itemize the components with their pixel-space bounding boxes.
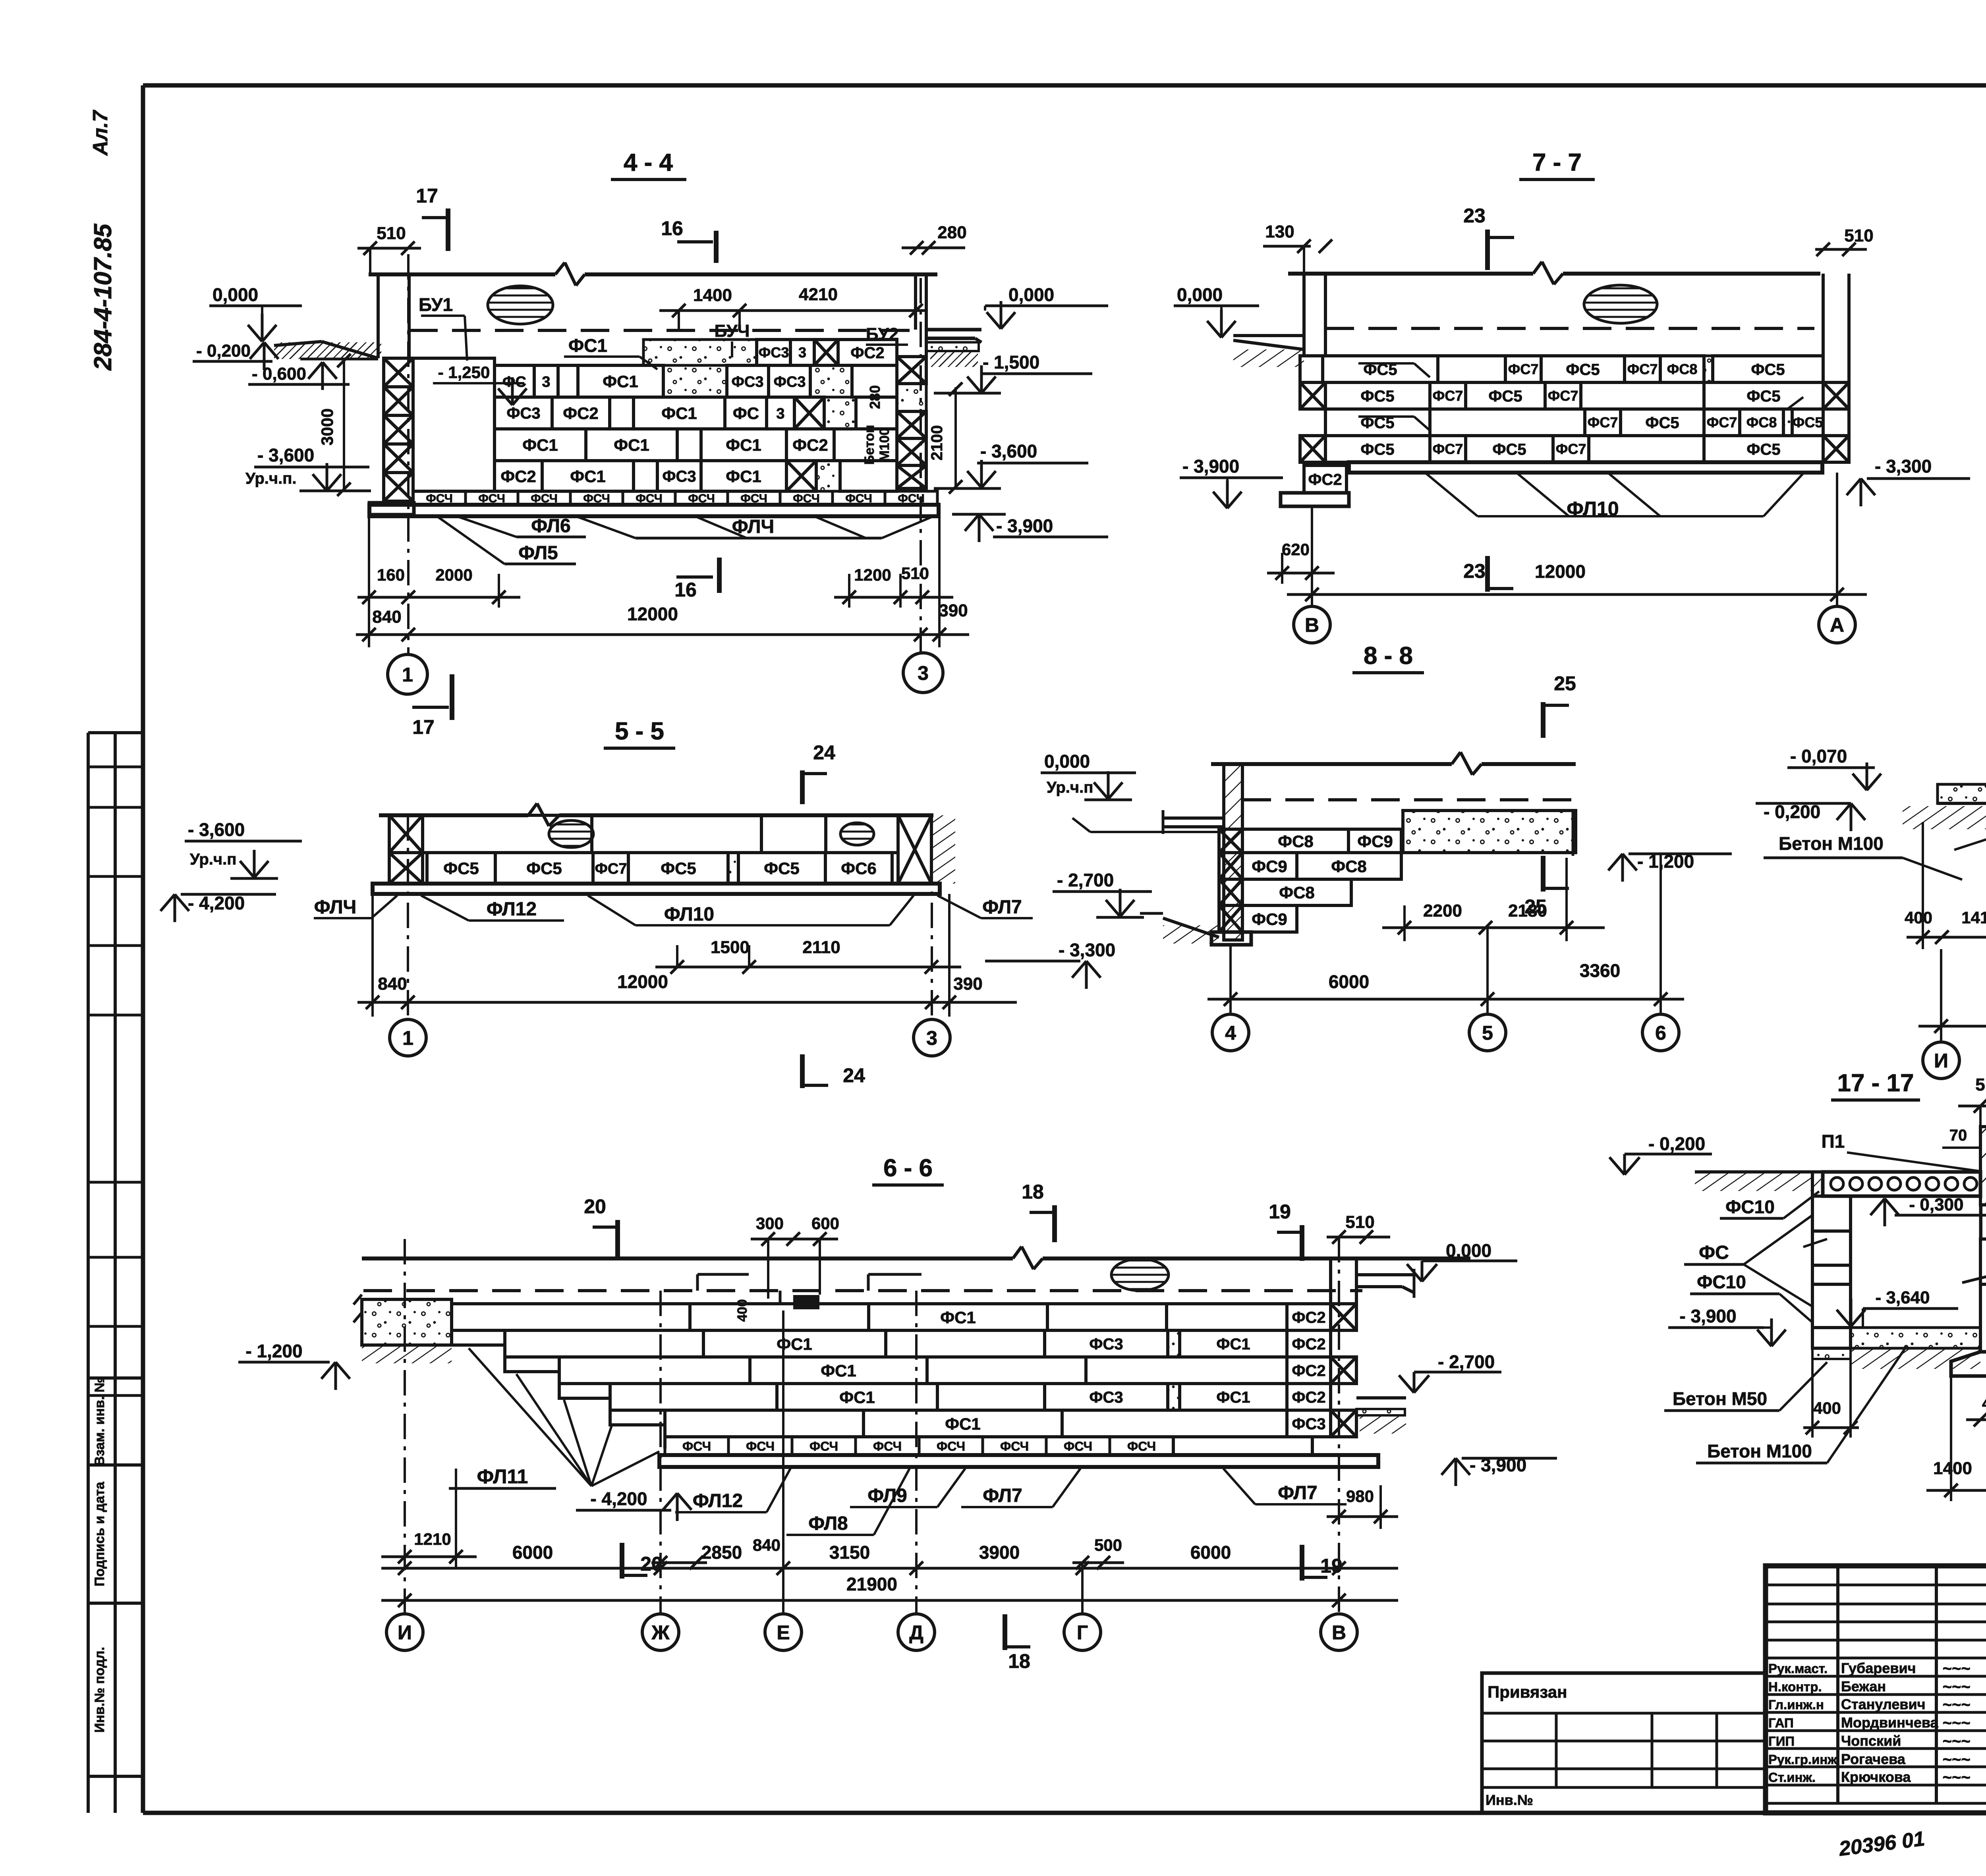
- svg-text:Бежан: Бежан: [1841, 1678, 1886, 1695]
- svg-text:130: 130: [1265, 222, 1294, 241]
- svg-text:А: А: [1830, 614, 1844, 636]
- base plate 6-6: [659, 1455, 1378, 1467]
- svg-text:ФС1: ФС1: [726, 467, 761, 486]
- svg-text:ФСЧ: ФСЧ: [1000, 1439, 1029, 1453]
- svg-text:Ст.инж.: Ст.инж.: [1768, 1770, 1816, 1785]
- svg-text:П1: П1: [1822, 1131, 1845, 1152]
- svg-text:ФС: ФС: [1699, 1242, 1729, 1263]
- concrete strip stipple 8-8: [1403, 811, 1576, 853]
- right pier X blocks: [897, 357, 926, 384]
- svg-text:70: 70: [1949, 1127, 1967, 1144]
- concrete pad left stipple: [362, 1299, 452, 1345]
- svg-text:3: 3: [918, 662, 929, 684]
- svg-text:12000: 12000: [627, 604, 678, 624]
- base plate 5-5: [373, 884, 940, 894]
- dashed line 8-8: [1242, 798, 1575, 801]
- floor and hatch right of wall: [1356, 1396, 1406, 1399]
- svg-text:ФС2: ФС2: [1292, 1309, 1325, 1326]
- svg-text:ФЛ11: ФЛ11: [477, 1465, 528, 1488]
- row3 6-6: [559, 1357, 750, 1384]
- svg-text:3: 3: [542, 374, 550, 390]
- svg-text:ФС6: ФС6: [841, 859, 877, 878]
- svg-text:12000: 12000: [617, 971, 668, 992]
- svg-text:ФС7: ФС7: [1588, 414, 1618, 430]
- svg-text:280: 280: [867, 385, 883, 409]
- block row 3: [495, 429, 586, 461]
- svg-text:0,000: 0,000: [213, 284, 258, 305]
- svg-text:ФС2: ФС2: [500, 467, 536, 486]
- svg-text:18: 18: [1022, 1181, 1044, 1203]
- row 2 blocks: [389, 853, 423, 884]
- right floor slab and ground: [926, 328, 981, 332]
- svg-text:- 3,300: - 3,300: [1875, 456, 1932, 477]
- svg-text:ФЛ10: ФЛ10: [664, 904, 714, 925]
- svg-text:ФС7: ФС7: [1627, 361, 1658, 377]
- svg-text:ФС2: ФС2: [792, 436, 828, 454]
- svg-text:- 3,600: - 3,600: [188, 819, 245, 840]
- svg-text:ФС5: ФС5: [661, 859, 696, 878]
- svg-text:21900: 21900: [846, 1574, 897, 1594]
- svg-text:ФС1: ФС1: [1216, 1336, 1250, 1353]
- svg-text:Ж: Ж: [651, 1621, 670, 1644]
- svg-text:- 3,900: - 3,900: [1679, 1306, 1736, 1326]
- svg-text:И: И: [1934, 1050, 1948, 1072]
- svg-text:ФС8: ФС8: [1279, 883, 1315, 902]
- svg-text:М100: М100: [877, 428, 892, 461]
- svg-text:ФС7: ФС7: [1548, 388, 1578, 404]
- cut flag 23 bottom: [1485, 556, 1490, 592]
- top line of wall: [379, 813, 528, 817]
- svg-text:ФС7: ФС7: [1508, 361, 1539, 377]
- right end tall X box: [898, 815, 931, 884]
- top floor line 6-6: [362, 1256, 1013, 1260]
- svg-text:ФС2: ФС2: [1292, 1336, 1325, 1353]
- svg-text:Е: Е: [777, 1621, 790, 1644]
- cloud hatch blob: [488, 286, 553, 324]
- cut flag 25 mid: [1541, 856, 1546, 892]
- svg-text:Крючкова: Крючкова: [1841, 1769, 1911, 1785]
- svg-text:Ур.ч.п: Ур.ч.п: [190, 851, 236, 868]
- svg-text:Бетон: Бетон: [862, 425, 877, 465]
- axis circle И 9-9: [1923, 1042, 1959, 1079]
- svg-text:ФС2: ФС2: [1292, 1389, 1325, 1406]
- svg-text:~~~: ~~~: [1942, 1751, 1970, 1768]
- axis circle 3: [903, 653, 943, 693]
- svg-text:ФС1: ФС1: [570, 467, 606, 486]
- hatched wall strip 8-8: [1224, 764, 1242, 940]
- axis circle 5: [1469, 1014, 1506, 1051]
- axis circle В 7-7: [1294, 606, 1330, 643]
- pier footing: [369, 503, 414, 515]
- svg-text:Бетон М100: Бетон М100: [1779, 833, 1884, 854]
- svg-text:20: 20: [584, 1195, 606, 1218]
- upper wall hatched 17-17: [1980, 1127, 1986, 1205]
- floor concrete strip between walls: [1851, 1328, 1980, 1348]
- svg-text:2180: 2180: [1508, 901, 1547, 921]
- svg-text:ФС2: ФС2: [1292, 1362, 1325, 1380]
- top line 8-8: [1211, 762, 1452, 766]
- svg-text:400: 400: [1905, 908, 1932, 927]
- svg-text:390: 390: [939, 601, 968, 620]
- right wall 17-17: [1980, 1239, 1986, 1284]
- svg-text:ФС5: ФС5: [764, 859, 800, 878]
- axis circle 4: [1212, 1014, 1249, 1051]
- svg-text:ФС1: ФС1: [726, 436, 761, 454]
- svg-text:ФЛ12: ФЛ12: [693, 1490, 743, 1511]
- svg-text:2110: 2110: [802, 938, 840, 957]
- right wall above ground: [914, 274, 917, 330]
- svg-text:390: 390: [953, 974, 982, 994]
- svg-text:- 0,070: - 0,070: [1790, 746, 1847, 766]
- row 1 tall blocks: [389, 815, 423, 853]
- svg-text:- 4,200: - 4,200: [590, 1488, 647, 1509]
- left sidebar column: [87, 733, 90, 1813]
- svg-text:- 2,700: - 2,700: [1057, 870, 1114, 890]
- svg-text:ФС5: ФС5: [443, 859, 479, 878]
- row5 6-6: [665, 1410, 864, 1437]
- left pad stipple: [1938, 784, 1986, 803]
- svg-text:6 - 6: 6 - 6: [883, 1154, 933, 1182]
- svg-text:ФС1: ФС1: [661, 404, 697, 423]
- svg-text:500: 500: [1094, 1536, 1122, 1554]
- svg-text:ФС5: ФС5: [526, 859, 562, 878]
- svg-text:ФС10: ФС10: [1697, 1272, 1746, 1292]
- axis circle Е 6-6: [765, 1614, 802, 1650]
- svg-text:Г: Г: [1077, 1621, 1088, 1644]
- left wall 17-17: [1812, 1196, 1851, 1231]
- svg-text:Подпись и дата: Подпись и дата: [92, 1481, 107, 1586]
- svg-text:ФС1: ФС1: [940, 1308, 976, 1327]
- ground hatch left of wall: [274, 342, 322, 345]
- svg-text:ФС3: ФС3: [506, 405, 540, 422]
- svg-text:ФС: ФС: [733, 404, 759, 423]
- svg-text:Взам. инв. №: Взам. инв. №: [92, 1377, 107, 1466]
- ground hatch left 17-17: [1695, 1170, 1812, 1173]
- svg-text:ФС7: ФС7: [595, 861, 627, 877]
- svg-text:4: 4: [1225, 1022, 1236, 1044]
- cut flag 19 bottom: [1300, 1545, 1304, 1581]
- svg-text:17: 17: [412, 716, 435, 738]
- svg-text:Чопский: Чопский: [1841, 1733, 1901, 1749]
- svg-text:ФС1: ФС1: [568, 335, 607, 356]
- block row 4: [495, 461, 542, 491]
- svg-text:ФС5: ФС5: [1746, 388, 1780, 405]
- svg-text:ФС3: ФС3: [662, 468, 696, 485]
- axis circle В 6-6: [1321, 1614, 1357, 1650]
- svg-text:400: 400: [1813, 1399, 1841, 1417]
- svg-text:- 2,700: - 2,700: [1438, 1351, 1495, 1372]
- svg-text:3: 3: [776, 405, 784, 422]
- svg-text:~~~: ~~~: [1942, 1678, 1970, 1696]
- svg-text:~~~: ~~~: [1942, 1696, 1970, 1714]
- svg-text:510: 510: [1844, 226, 1873, 245]
- row4 blocks: [1300, 436, 1325, 462]
- svg-text:ФСЧ: ФСЧ: [746, 1439, 775, 1453]
- right floor slab arrow 6-6: [1356, 1273, 1414, 1276]
- svg-text:24: 24: [813, 741, 835, 764]
- svg-text:3000: 3000: [318, 408, 336, 445]
- svg-text:Рук.гр.инж: Рук.гр.инж: [1768, 1752, 1837, 1767]
- svg-text:1: 1: [402, 664, 413, 686]
- svg-text:ФС2: ФС2: [563, 404, 599, 423]
- svg-text:ФС3: ФС3: [1292, 1415, 1325, 1433]
- svg-text:ФС9: ФС9: [1357, 832, 1393, 851]
- svg-text:440: 440: [1982, 1394, 1986, 1413]
- svg-text:~~~: ~~~: [1942, 1714, 1970, 1732]
- svg-text:ФС3: ФС3: [1089, 1336, 1123, 1353]
- svg-text:ФС1: ФС1: [614, 436, 649, 454]
- svg-text:3: 3: [798, 344, 806, 361]
- svg-text:1210: 1210: [414, 1530, 451, 1548]
- underside dashed line: [409, 329, 914, 332]
- svg-text:ФС1: ФС1: [777, 1335, 812, 1353]
- top floor slab line: [369, 272, 555, 276]
- svg-text:0,000: 0,000: [1008, 284, 1054, 305]
- svg-text:ФС7: ФС7: [1433, 441, 1463, 457]
- svg-text:Гл.инж.н: Гл.инж.н: [1768, 1697, 1824, 1712]
- svg-text:3360: 3360: [1580, 960, 1620, 981]
- axis circle 6: [1642, 1014, 1679, 1051]
- cut flag 17 bottom: [450, 674, 454, 720]
- blocks 8-8: [1242, 829, 1348, 853]
- svg-text:5: 5: [1482, 1022, 1493, 1044]
- svg-text:620: 620: [1282, 540, 1310, 559]
- svg-text:ФС2: ФС2: [1308, 471, 1342, 488]
- svg-text:ФС3: ФС3: [1089, 1389, 1123, 1406]
- axis circle 3 of 5-5: [914, 1019, 950, 1056]
- svg-text:ФС5: ФС5: [1360, 388, 1394, 405]
- row 0 right part: [643, 340, 757, 365]
- svg-text:ГИП: ГИП: [1768, 1734, 1795, 1749]
- svg-text:Инв.№ подл.: Инв.№ подл.: [92, 1647, 107, 1733]
- svg-text:В: В: [1305, 614, 1319, 636]
- svg-text:7 - 7: 7 - 7: [1532, 149, 1582, 176]
- svg-text:ФС8: ФС8: [1746, 414, 1777, 430]
- svg-text:ФС7: ФС7: [1433, 388, 1463, 404]
- svg-text:160: 160: [377, 566, 405, 584]
- sheet frame: [143, 83, 1986, 88]
- svg-text:И: И: [398, 1621, 412, 1644]
- svg-text:ФЛЧ: ФЛЧ: [314, 897, 357, 918]
- staircase step lines 6-6: [452, 1345, 665, 1449]
- svg-text:~~~: ~~~: [1942, 1733, 1970, 1750]
- svg-text:1400: 1400: [693, 286, 732, 305]
- dashed underside 7-7: [1325, 327, 1814, 330]
- bottom block row ФСЧ: [413, 491, 466, 505]
- wall above ground 7-7: [1302, 274, 1306, 356]
- top floor slab line 7-7: [1288, 272, 1533, 276]
- svg-text:Бетон М50: Бетон М50: [1673, 1388, 1767, 1409]
- title block signature columns: [1836, 1566, 1839, 1803]
- svg-text:- 3,600: - 3,600: [257, 445, 314, 465]
- base plate: [369, 505, 939, 516]
- floor slab with round voids: [1823, 1172, 1980, 1196]
- svg-text:БУ1: БУ1: [419, 294, 453, 315]
- svg-text:840: 840: [372, 607, 401, 627]
- svg-text:0,000: 0,000: [1446, 1240, 1491, 1261]
- svg-text:ФЛ6: ФЛ6: [531, 515, 571, 537]
- svg-text:- 0,600: - 0,600: [252, 364, 306, 384]
- row4 6-6: [610, 1384, 777, 1410]
- svg-text:ФС1: ФС1: [945, 1415, 981, 1433]
- axis circle А 7-7: [1819, 606, 1855, 643]
- right wall 7-7: [1822, 274, 1825, 462]
- svg-text:280: 280: [937, 223, 966, 242]
- svg-text:3900: 3900: [979, 1542, 1020, 1563]
- svg-text:ФС5: ФС5: [1645, 414, 1679, 432]
- ground hatch right of X: [931, 815, 955, 884]
- axis verticals: [407, 254, 410, 653]
- svg-text:Инв.№: Инв.№: [1486, 1792, 1533, 1808]
- svg-text:1410: 1410: [1961, 908, 1986, 927]
- svg-text:ГАП: ГАП: [1768, 1716, 1794, 1730]
- svg-text:1200: 1200: [854, 566, 891, 584]
- svg-text:Н.контр.: Н.контр.: [1768, 1679, 1822, 1694]
- svg-text:- 0,200: - 0,200: [1648, 1133, 1705, 1154]
- svg-text:6000: 6000: [1329, 971, 1369, 992]
- svg-text:~~~: ~~~: [1942, 1769, 1970, 1786]
- svg-text:~~~: ~~~: [1942, 1660, 1970, 1677]
- svg-text:980: 980: [1346, 1487, 1374, 1505]
- cut flag 20 bottom: [620, 1543, 624, 1579]
- svg-text:23: 23: [1463, 560, 1486, 582]
- footing 17-17: [1951, 1352, 1986, 1376]
- svg-text:17: 17: [416, 185, 438, 207]
- ground hatch left 7-7: [1233, 340, 1304, 349]
- svg-text:ФЛ7: ФЛ7: [983, 1485, 1022, 1506]
- right wall above ground 6-6: [1329, 1258, 1332, 1304]
- dim 2100 rotated right: [954, 387, 957, 488]
- svg-text:3: 3: [926, 1027, 937, 1049]
- svg-text:Рук.маст.: Рук.маст.: [1768, 1661, 1828, 1676]
- svg-text:ФС5: ФС5: [1793, 414, 1823, 430]
- row3 blocks: [1325, 409, 1430, 436]
- row1 blocks: [1300, 356, 1323, 382]
- svg-text:ФС5: ФС5: [1360, 441, 1394, 458]
- row2 6-6: [505, 1330, 703, 1357]
- svg-text:ФС5: ФС5: [1751, 361, 1785, 378]
- row ФСЧ 6-6: [665, 1437, 728, 1455]
- axis circle 1: [388, 654, 427, 694]
- svg-text:ФЛ5: ФЛ5: [518, 542, 558, 564]
- svg-text:5 - 5: 5 - 5: [615, 718, 664, 745]
- svg-text:ФС1: ФС1: [1216, 1389, 1250, 1406]
- axis circle И 6-6: [386, 1614, 423, 1650]
- svg-text:ФС1: ФС1: [839, 1388, 875, 1407]
- svg-text:3150: 3150: [829, 1542, 870, 1563]
- svg-text:ФС7: ФС7: [1556, 441, 1586, 457]
- svg-text:ФС8: ФС8: [1667, 361, 1698, 377]
- svg-text:ФС: ФС: [502, 374, 526, 390]
- svg-text:Губаревич: Губаревич: [1841, 1660, 1916, 1676]
- axis circle Ж 6-6: [642, 1614, 679, 1650]
- svg-text:12000: 12000: [1535, 561, 1586, 582]
- svg-text:ФС5: ФС5: [1566, 361, 1600, 378]
- svg-text:- 4,200: - 4,200: [188, 893, 245, 913]
- svg-text:2100: 2100: [928, 425, 946, 461]
- svg-text:2000: 2000: [435, 566, 472, 584]
- svg-text:Бетон М100: Бетон М100: [1707, 1441, 1812, 1461]
- svg-text:16: 16: [661, 217, 683, 239]
- block row 1: [495, 365, 534, 397]
- pit rectangle: [413, 358, 495, 491]
- svg-text:6000: 6000: [1190, 1542, 1231, 1563]
- svg-text:ФС1: ФС1: [603, 372, 638, 391]
- svg-text:ФСЧ: ФСЧ: [937, 1439, 965, 1453]
- svg-text:840: 840: [753, 1536, 780, 1554]
- svg-text:ФЛ9: ФЛ9: [867, 1485, 907, 1506]
- svg-text:510: 510: [1345, 1212, 1374, 1232]
- svg-text:- 3,640: - 3,640: [1876, 1288, 1930, 1307]
- cut flag 24 bottom: [800, 1054, 805, 1088]
- svg-text:ФСЧ: ФСЧ: [809, 1439, 838, 1453]
- small table Привязан: [1482, 1673, 1766, 1813]
- svg-text:2850: 2850: [701, 1542, 742, 1563]
- ground hatch under pad: [362, 1345, 452, 1363]
- svg-text:8 - 8: 8 - 8: [1364, 642, 1413, 670]
- footing 8-8: [1211, 932, 1251, 945]
- svg-text:Ал.7: Ал.7: [89, 110, 112, 156]
- svg-text:ФСЧ: ФСЧ: [1127, 1439, 1156, 1453]
- ground hatch left 9-9: [1903, 806, 1986, 829]
- svg-text:- 3,900: - 3,900: [996, 515, 1053, 536]
- svg-text:600: 600: [811, 1214, 839, 1233]
- svg-text:- 1,500: - 1,500: [983, 352, 1039, 372]
- svg-text:510: 510: [377, 224, 406, 243]
- svg-text:284-4-107.85: 284-4-107.85: [89, 223, 117, 371]
- svg-text:ФС10: ФС10: [1725, 1197, 1775, 1217]
- svg-text:1400: 1400: [1933, 1459, 1972, 1478]
- svg-text:- 3,600: - 3,600: [980, 441, 1037, 461]
- svg-text:- 1,250: - 1,250: [438, 363, 490, 382]
- svg-text:1500: 1500: [711, 938, 750, 957]
- svg-text:0,000: 0,000: [1044, 751, 1090, 772]
- ground hatch 8-8: [1163, 918, 1219, 937]
- svg-text:16: 16: [674, 579, 697, 601]
- svg-text:ФС5: ФС5: [1488, 388, 1522, 405]
- svg-text:ФС9: ФС9: [1252, 910, 1287, 928]
- left pier of X blocks: [384, 358, 413, 387]
- cloud 6-6: [1111, 1259, 1169, 1291]
- block row 2: [495, 397, 552, 429]
- cloud 7-7: [1584, 285, 1657, 323]
- svg-text:Д: Д: [909, 1621, 923, 1644]
- svg-text:Рогачева: Рогачева: [1841, 1751, 1906, 1767]
- svg-text:Ур.ч.п.: Ур.ч.п.: [245, 470, 297, 487]
- svg-text:840: 840: [378, 974, 407, 994]
- svg-text:ФС5: ФС5: [1746, 441, 1780, 458]
- title block outer: [1766, 1566, 1986, 1813]
- svg-text:4 - 4: 4 - 4: [624, 149, 673, 176]
- svg-text:Ур.ч.п: Ур.ч.п: [1047, 779, 1093, 796]
- small leaders 9-9: [1954, 824, 1986, 850]
- svg-text:Мордвинчева: Мордвинчева: [1841, 1714, 1939, 1731]
- axis circle 1 of 5-5: [390, 1019, 426, 1056]
- axis circle Г 6-6: [1064, 1614, 1101, 1650]
- svg-text:ФСЧ: ФСЧ: [1064, 1439, 1092, 1453]
- small leaders in rows: [1358, 362, 1414, 365]
- svg-text:2200: 2200: [1423, 901, 1462, 921]
- svg-text:ФС3: ФС3: [731, 374, 763, 390]
- leader to wall 8-8: [1090, 831, 1217, 833]
- svg-text:ФС8: ФС8: [1278, 832, 1314, 851]
- svg-text:4210: 4210: [799, 285, 838, 304]
- svg-text:ФЛ12: ФЛ12: [487, 899, 537, 920]
- svg-text:25: 25: [1554, 672, 1576, 695]
- svg-text:В: В: [1332, 1621, 1346, 1644]
- svg-text:- 3,300: - 3,300: [1059, 940, 1115, 960]
- svg-text:ФС8: ФС8: [1331, 857, 1367, 876]
